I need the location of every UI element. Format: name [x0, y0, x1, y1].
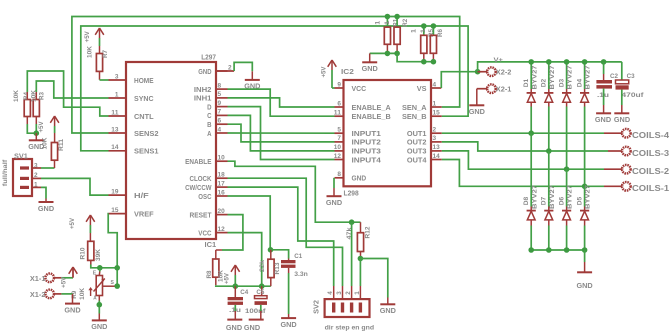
wire R12 gnd branch — [360, 259, 387, 305]
IC IC2 L298 — [341, 67, 431, 197]
junction COILS-4 D1 — [528, 130, 534, 136]
resistor R13 — [259, 250, 281, 278]
connector SV2 — [311, 286, 374, 332]
svg-text:6: 6 — [218, 118, 222, 125]
svg-text:A: A — [93, 296, 96, 302]
svg-text:RESET: RESET — [190, 210, 212, 219]
svg-text:SYNC: SYNC — [134, 94, 154, 103]
svg-text:D5: D5 — [576, 196, 583, 205]
svg-text:OUT4: OUT4 — [407, 155, 427, 164]
wire R4 bottom to gnd junction — [27, 117, 36, 134]
svg-text:COILS-1: COILS-1 — [632, 184, 669, 193]
IC1 left pin stubs — [109, 80, 127, 214]
junction D8 rail — [528, 247, 534, 253]
svg-text:R6: R6 — [437, 29, 444, 37]
wire OUT1 to COILS-4 — [442, 132, 622, 134]
wire CW/CCW to SV2 pin4 — [228, 187, 334, 286]
svg-text:L298: L298 — [344, 188, 359, 197]
wire CLOCK to SV2 pin3 — [228, 178, 343, 286]
ground C2 — [595, 113, 612, 124]
svg-text:10K: 10K — [79, 288, 86, 300]
IC1 right pin numbers — [218, 64, 232, 233]
svg-text:5: 5 — [218, 91, 222, 98]
svg-text:GND: GND — [577, 281, 594, 290]
svg-text:2: 2 — [433, 127, 437, 134]
svg-text:C4: C4 — [240, 289, 248, 296]
wire SV2 pin2 to ENABLE — [351, 222, 353, 286]
wire SENS1 rail to R5 R6 and SEN_B — [81, 26, 468, 151]
wire IC1 GND pin to ground — [216, 62, 252, 79]
wire OUT3 to COILS-2 — [442, 151, 622, 169]
+5V supply rail — [224, 265, 240, 286]
wire R7 to HOME pin — [100, 71, 109, 80]
wire R5 bottom — [423, 53, 425, 61]
svg-text:ENABLE: ENABLE — [185, 157, 211, 166]
svg-text:14: 14 — [111, 144, 118, 151]
ground SV2 — [380, 304, 397, 315]
svg-text:R13: R13 — [274, 262, 281, 274]
svg-text:C5: C5 — [256, 289, 264, 296]
svg-text:R7: R7 — [102, 50, 109, 58]
svg-text:OSC: OSC — [198, 192, 212, 201]
svg-text:+5V: +5V — [61, 276, 68, 288]
svg-text:CLOCK: CLOCK — [190, 174, 212, 183]
wire OSC node to C1 — [271, 250, 289, 259]
wire D4 to COILS-1 node — [584, 107, 586, 187]
svg-text:2: 2 — [345, 291, 352, 295]
ground R3/R4 — [28, 133, 45, 151]
wire D3 to COILS-2 node — [566, 107, 568, 170]
svg-text:X1-2: X1-2 — [30, 292, 46, 299]
svg-text:GND: GND — [38, 204, 55, 213]
svg-text:BYV27: BYV27 — [549, 184, 556, 209]
svg-text:10K: 10K — [87, 46, 94, 58]
svg-text:10K: 10K — [41, 137, 48, 149]
IC2 right pin names — [402, 84, 427, 165]
svg-text:X2-1: X2-1 — [496, 86, 512, 93]
resistor R6 — [420, 26, 444, 53]
svg-text:OUT2: OUT2 — [407, 138, 427, 147]
svg-text:13: 13 — [433, 144, 440, 151]
capacitor C1 — [281, 253, 308, 278]
IC1 right pin names — [185, 67, 212, 238]
resistor R4 — [13, 90, 30, 117]
svg-text:GND: GND — [226, 323, 243, 332]
junction R1 bottom — [385, 51, 391, 57]
ground C5 — [244, 320, 264, 332]
svg-text:GND: GND — [281, 320, 298, 329]
pad COILS-2 — [622, 165, 669, 176]
+5V supply R7 — [84, 28, 104, 54]
svg-text:SEN_B: SEN_B — [402, 112, 427, 121]
capacitor C4 — [228, 286, 249, 314]
svg-text:SV1: SV1 — [14, 151, 28, 160]
resistor R11 — [41, 137, 65, 160]
svg-text:INH1: INH1 — [194, 94, 212, 103]
junction R3/R4 gnd — [34, 130, 40, 136]
svg-text:VREF: VREF — [134, 209, 154, 218]
svg-text:3: 3 — [115, 73, 119, 80]
svg-text:R1: R1 — [393, 19, 400, 27]
svg-text:16: 16 — [218, 189, 225, 196]
svg-text:SENS1: SENS1 — [134, 147, 159, 156]
junction D7 rail — [546, 247, 552, 253]
svg-text:C3: C3 — [627, 73, 635, 80]
IC1 left pin numbers — [111, 73, 118, 214]
wire R3 top to SYNC net — [36, 81, 108, 100]
wire C1 to ground — [288, 268, 290, 318]
svg-text:GND: GND — [64, 305, 81, 314]
svg-text:D: D — [207, 102, 212, 111]
svg-text:ENABLE_B: ENABLE_B — [352, 112, 392, 121]
svg-text:HOME: HOME — [134, 76, 154, 85]
wire R3 bottom to gnd junction — [35, 117, 37, 134]
wire bottom diode gnd rail — [531, 249, 584, 251]
svg-text:D3: D3 — [558, 78, 565, 87]
SV2 pin numbers — [327, 291, 361, 295]
pad X2-2 — [478, 67, 512, 76]
wire B to INPUT2 — [228, 124, 335, 142]
svg-text:+5V: +5V — [224, 272, 231, 284]
svg-text:12: 12 — [334, 153, 341, 160]
ground IC1 pin2 — [244, 80, 261, 91]
resistor R1 — [375, 17, 400, 45]
svg-text:470uf: 470uf — [622, 92, 645, 99]
wire IC2 GND pin to ground — [333, 178, 335, 196]
IC2 left pin numbers — [334, 81, 341, 178]
+5V supply X1-1 — [61, 267, 78, 288]
wire VREF to trimmer — [108, 214, 117, 286]
junction COILS-1 D4 — [582, 184, 588, 190]
ground diodes — [577, 272, 594, 290]
wire OUT2 to COILS-3 — [442, 142, 622, 151]
svg-text:COILS-2: COILS-2 — [632, 167, 669, 176]
resistor R5 — [410, 26, 435, 53]
diode D2 BYV27 — [541, 62, 556, 107]
svg-text:17: 17 — [218, 180, 225, 187]
IC2 right pin numbers — [433, 81, 440, 160]
svg-text:15: 15 — [433, 110, 440, 117]
svg-text:A: A — [207, 129, 212, 138]
svg-text:D4: D4 — [576, 78, 583, 87]
wire SV2 pin1 to R12 — [359, 259, 361, 287]
svg-text:D7: D7 — [541, 196, 548, 205]
svg-text:1: 1 — [354, 291, 361, 295]
junction R2 top — [394, 14, 400, 20]
junction COILS-3 D2 — [546, 148, 552, 154]
diode D3 BYV27 — [558, 62, 573, 107]
wire R4 top to CNTL net — [27, 71, 108, 116]
svg-text:1: 1 — [420, 29, 427, 33]
svg-text:full/half: full/half — [2, 159, 9, 187]
svg-text:20: 20 — [218, 208, 225, 215]
junction COILS-2 D3 — [564, 166, 570, 172]
ground R1 R2 — [362, 53, 379, 73]
capacitor C3 — [616, 62, 645, 113]
svg-text:C2: C2 — [610, 73, 618, 80]
junction R5 bottom — [421, 59, 427, 65]
wire R2 bottom down to R5 R6 rail — [397, 53, 433, 61]
IC1 left pin names — [134, 76, 159, 219]
+5V supply IC2 — [321, 60, 337, 88]
svg-text:SENS2: SENS2 — [134, 129, 159, 138]
svg-text:4: 4 — [218, 126, 222, 133]
svg-text:22k: 22k — [259, 260, 266, 272]
wire INH1 to ENABLE_A — [228, 98, 335, 107]
svg-text:E: E — [93, 271, 97, 277]
svg-text:+5V: +5V — [38, 121, 45, 133]
junction R2 bottom — [394, 51, 400, 57]
svg-text:+5V: +5V — [69, 217, 76, 229]
wire +5V rail R8 C4 C5 R13 — [216, 277, 271, 286]
svg-text:1: 1 — [375, 21, 382, 25]
wire ENABLE net to R12 and SV2 — [228, 161, 361, 222]
svg-text:CW/CCW: CW/CCW — [185, 183, 212, 192]
wire VCC to C5 node — [228, 233, 262, 287]
wire SENS2 rail to R1 R2 and SEN_A — [72, 17, 460, 134]
wire D2 to COILS-3 node — [548, 107, 550, 152]
svg-text:GND: GND — [380, 306, 397, 315]
wire diode rail to ground — [584, 250, 586, 272]
svg-text:19: 19 — [111, 188, 118, 195]
wire SV1 pin2 to H/F — [32, 178, 109, 195]
ground pot — [91, 320, 108, 331]
svg-text:1: 1 — [433, 100, 437, 107]
+5V supply R10 — [69, 215, 95, 241]
wire RESET to R8 — [216, 215, 243, 250]
svg-text:D2: D2 — [541, 78, 548, 87]
junction ENABLE SV2 pin2 — [349, 219, 355, 225]
wire D to INPUT4 — [228, 107, 335, 160]
svg-text:H/F: H/F — [134, 191, 149, 200]
svg-text:INPUT4: INPUT4 — [352, 155, 382, 164]
svg-text:+5V: +5V — [321, 66, 328, 78]
junction R6 top — [431, 23, 437, 29]
svg-text:R10: R10 — [80, 247, 87, 259]
svg-text:L297: L297 — [201, 52, 216, 61]
svg-text:C: C — [207, 111, 212, 120]
ground SV1 — [38, 202, 55, 213]
svg-text:GND: GND — [595, 115, 612, 124]
ground X2-1 — [469, 105, 486, 116]
svg-text:R11: R11 — [58, 139, 65, 151]
svg-text:39K: 39K — [95, 249, 102, 261]
junction R12 bottom — [358, 256, 364, 262]
svg-text:11: 11 — [334, 110, 341, 117]
junction C5 VCC — [259, 283, 265, 289]
junction D6 rail — [564, 247, 570, 253]
svg-text:13: 13 — [111, 126, 118, 133]
svg-text:GND: GND — [244, 323, 261, 332]
svg-text:1: 1 — [384, 21, 391, 25]
resistor R10 — [80, 241, 103, 261]
svg-text:8: 8 — [218, 82, 222, 89]
IC2 right pin stubs — [431, 88, 442, 160]
capacitor C2 — [596, 62, 618, 113]
svg-text:ENABLE_A: ENABLE_A — [352, 103, 392, 112]
wire R10 bottom to pot node — [91, 260, 117, 267]
svg-text:GND: GND — [362, 64, 379, 73]
junction wiper VREF — [114, 283, 120, 289]
IC2 left pin stubs — [335, 88, 344, 178]
svg-text:CNTL: CNTL — [134, 112, 154, 121]
svg-text:10: 10 — [218, 155, 225, 162]
wire INH2 to ENABLE_B — [228, 89, 335, 116]
svg-text:R8: R8 — [206, 270, 213, 278]
svg-text:IC1: IC1 — [205, 240, 217, 249]
junction C2 V+ — [601, 59, 607, 65]
svg-text:1: 1 — [410, 29, 417, 33]
junction R5 top — [421, 23, 427, 29]
svg-text:IC2: IC2 — [341, 67, 354, 76]
svg-text:9: 9 — [337, 81, 341, 88]
diode D1 BYV27 — [523, 62, 538, 107]
junction D5 rail — [582, 247, 588, 253]
wire SV1 pin1 to ground — [32, 187, 46, 201]
junction OSC node — [268, 247, 274, 253]
svg-text:BYV27: BYV27 — [567, 65, 574, 90]
wire C5 to ground — [260, 305, 262, 320]
svg-text:3: 3 — [336, 291, 343, 295]
junction VREF rail — [114, 265, 120, 271]
svg-text:7: 7 — [218, 109, 222, 116]
svg-text:INH2: INH2 — [194, 85, 212, 94]
resistor R8 — [206, 250, 224, 282]
junction R1 top — [385, 14, 391, 20]
junction D1 V+ — [528, 59, 534, 65]
junction pot A — [97, 302, 103, 308]
wire OUT4 to COILS-1 — [442, 160, 622, 187]
wire SV1 pin3 to R11 — [32, 160, 55, 168]
svg-text:15: 15 — [111, 207, 118, 214]
svg-text:V+: V+ — [494, 57, 503, 64]
svg-text:R2: R2 — [402, 19, 409, 27]
svg-text:100nf: 100nf — [245, 308, 266, 315]
svg-text:6: 6 — [337, 100, 341, 107]
pad COILS-4 — [622, 129, 669, 140]
svg-text:3.3n: 3.3n — [294, 271, 308, 278]
svg-text:VCC: VCC — [352, 84, 367, 93]
wire pot wiper to VREF — [103, 285, 118, 287]
svg-text:11: 11 — [111, 109, 118, 116]
svg-text:GND: GND — [614, 115, 631, 124]
wire A to INPUT1 — [228, 132, 335, 134]
svg-text:BYV27: BYV27 — [585, 184, 592, 209]
pad COILS-3 — [622, 147, 669, 158]
svg-text:GND: GND — [326, 198, 343, 207]
junction D3 V+ — [564, 59, 570, 65]
svg-text:18: 18 — [218, 172, 225, 179]
ground C3 — [614, 113, 631, 124]
svg-text:14: 14 — [433, 153, 440, 160]
resistor R7 — [87, 46, 110, 71]
svg-text:BYV27: BYV27 — [531, 184, 538, 209]
resistor R12 — [346, 222, 371, 258]
diode D8 BYV27 — [523, 133, 538, 250]
wire R6 bottom — [432, 53, 434, 61]
junction R10 pot E — [97, 265, 103, 271]
svg-text:COILS-4: COILS-4 — [632, 131, 669, 140]
svg-text:C1: C1 — [294, 253, 302, 260]
junction D2 V+ — [546, 59, 552, 65]
pad X1-2 gnd input — [30, 290, 73, 304]
svg-text:INPUT1: INPUT1 — [352, 129, 382, 138]
svg-text:GND: GND — [352, 174, 367, 183]
svg-text:GND: GND — [198, 67, 212, 76]
svg-text:+5V: +5V — [84, 30, 91, 42]
svg-text:VCC: VCC — [198, 228, 212, 237]
wire pot A to ground — [98, 296, 100, 321]
junction C4 — [233, 283, 239, 289]
svg-text:BYV27: BYV27 — [585, 65, 592, 90]
diode D7 BYV27 — [541, 151, 556, 250]
svg-text:BYV27: BYV27 — [567, 184, 574, 209]
wire OSC to R13 C1 — [228, 196, 271, 250]
wire C4 to ground — [234, 305, 236, 320]
svg-text:D1: D1 — [523, 78, 530, 87]
svg-text:COILS-3: COILS-3 — [632, 149, 669, 158]
junction R6 bottom — [431, 59, 437, 65]
svg-text:4: 4 — [433, 81, 437, 88]
svg-text:OUT1: OUT1 — [407, 129, 427, 138]
svg-text:D8: D8 — [523, 196, 530, 205]
resistor R2 — [384, 17, 409, 45]
wire R1 R2 bottoms to gnd rail — [370, 44, 397, 53]
IC2 left pin names — [352, 84, 392, 183]
svg-text:B: B — [207, 120, 212, 129]
wire V+ rail to diodes and caps — [478, 62, 622, 72]
svg-text:12: 12 — [218, 226, 225, 233]
svg-text:VS: VS — [417, 84, 427, 93]
svg-text:10K: 10K — [13, 90, 20, 102]
connector SV1 — [2, 151, 32, 196]
ground C1 — [281, 318, 298, 329]
svg-text:X1-1: X1-1 — [30, 276, 46, 283]
ground X1-2 — [64, 304, 81, 315]
junction D4 V+ — [582, 59, 588, 65]
svg-text:dir step en gnd: dir step en gnd — [325, 325, 375, 332]
ground IC2 — [326, 196, 343, 207]
IC1 right pin stubs — [216, 71, 228, 233]
ground C4 — [226, 320, 243, 332]
svg-text:7: 7 — [337, 135, 341, 142]
+5V supply R11 — [38, 116, 59, 143]
IC IC1 L297 — [126, 52, 216, 249]
svg-text:INPUT2: INPUT2 — [352, 138, 381, 147]
svg-text:X2-2: X2-2 — [496, 69, 512, 76]
wire VS to V+ node — [441, 72, 477, 88]
capacitor C5 — [245, 286, 267, 315]
svg-text:GND: GND — [469, 107, 486, 116]
svg-text:D6: D6 — [558, 196, 565, 205]
pad X1-1 +5V input — [30, 274, 73, 284]
svg-text:BYV27: BYV27 — [531, 65, 538, 90]
svg-text:R12: R12 — [364, 226, 371, 238]
resistor R3 — [31, 90, 46, 117]
diode D4 BYV27 — [576, 62, 591, 107]
pad X2-1 — [477, 84, 512, 105]
svg-text:1: 1 — [115, 91, 119, 98]
wire C to INPUT3 — [228, 115, 335, 150]
svg-text:5: 5 — [337, 127, 341, 134]
svg-text:10: 10 — [334, 144, 341, 151]
svg-text:GND: GND — [91, 322, 108, 331]
pad COILS-1 — [622, 182, 669, 193]
wire D1 to COILS-4 node — [530, 107, 532, 134]
svg-text:R4: R4 — [23, 92, 30, 100]
svg-text:4: 4 — [327, 291, 334, 295]
junction V+ — [475, 69, 481, 75]
